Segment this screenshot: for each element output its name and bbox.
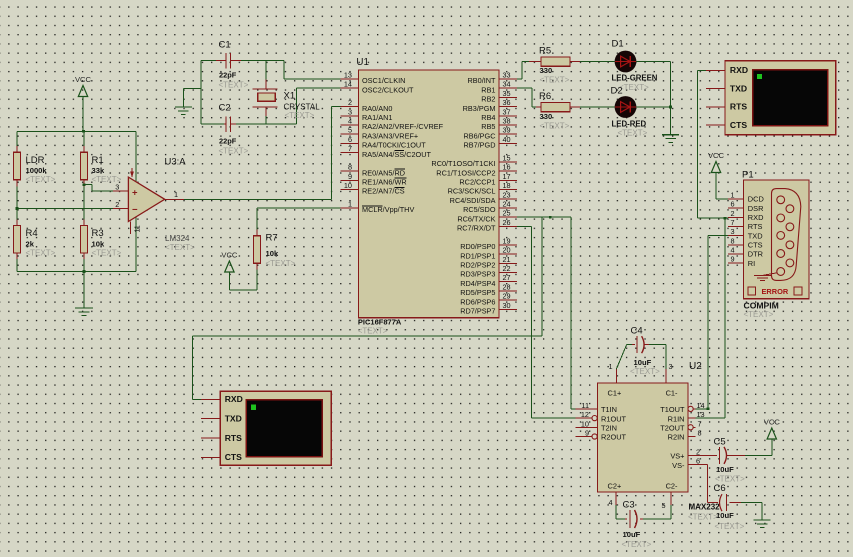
svg-text:C3: C3: [623, 500, 635, 511]
svg-text:U3:A: U3:A: [165, 157, 187, 168]
svg-text:26: 26: [503, 218, 511, 227]
svg-text:13: 13: [697, 410, 705, 419]
svg-text:R4: R4: [26, 228, 38, 239]
U1 left pin stubs: [341, 79, 359, 208]
svg-text:C1+: C1+: [608, 389, 622, 398]
svg-text:23: 23: [503, 190, 511, 199]
svg-text:<TEXT>: <TEXT>: [688, 513, 718, 522]
svg-text:RE2/AN7/CS: RE2/AN7/CS: [362, 187, 405, 196]
U2 <TEXT> MAX232 labels: [688, 503, 720, 522]
capacitor C6: [688, 465, 741, 520]
svg-text:RA4/T0CKI/C1OUT: RA4/T0CKI/C1OUT: [362, 141, 426, 150]
svg-text:2: 2: [730, 209, 734, 218]
svg-text:29: 29: [503, 292, 511, 301]
svg-text:C1: C1: [219, 40, 231, 51]
wire VT1 RXD feed: [697, 70, 728, 218]
svg-text:<TEXT>: <TEXT>: [619, 83, 649, 92]
svg-text:RA3/AN3/VREF+: RA3/AN3/VREF+: [362, 131, 418, 140]
svg-text:27: 27: [503, 273, 511, 282]
svg-text:10uF: 10uF: [716, 511, 734, 520]
svg-text:RD0/PSP0: RD0/PSP0: [460, 242, 495, 251]
svg-text:4: 4: [348, 117, 352, 126]
svg-text:15: 15: [503, 153, 511, 162]
svg-text:25: 25: [503, 209, 511, 218]
svg-text:10: 10: [581, 419, 589, 428]
svg-text:330: 330: [540, 112, 553, 121]
svg-text:35: 35: [503, 89, 511, 98]
wire ground branch: [183, 88, 201, 107]
svg-text:33k: 33k: [92, 166, 105, 175]
svg-text:20: 20: [503, 246, 511, 255]
svg-text:LED-RED: LED-RED: [612, 120, 647, 129]
svg-text:VS-: VS-: [672, 461, 685, 470]
svg-text:RE1/AN6/WR: RE1/AN6/WR: [362, 178, 407, 187]
svg-text:17: 17: [503, 172, 511, 181]
svg-text:LED-GREEN: LED-GREEN: [612, 74, 658, 83]
ground (sensor): [75, 308, 93, 316]
svg-text:RB1: RB1: [481, 85, 495, 94]
ground (LEDs): [662, 135, 679, 143]
svg-text:RA0/AN0: RA0/AN0: [362, 104, 392, 113]
U1 left pin numbers: [344, 70, 352, 208]
svg-text:RB4: RB4: [481, 113, 495, 122]
svg-text:RB7/PGD: RB7/PGD: [463, 141, 495, 150]
svg-text:RC6/TX/CK: RC6/TX/CK: [457, 214, 495, 223]
svg-text:RI: RI: [748, 259, 755, 268]
power VCC (P1): [708, 151, 728, 199]
svg-text:D2: D2: [611, 86, 623, 97]
svg-text:RTS: RTS: [730, 102, 747, 112]
wire C5 to VCC: [745, 439, 772, 456]
svg-text:−: −: [132, 204, 138, 215]
wire RC7 to R1OUT: [517, 226, 576, 418]
svg-text:22pF: 22pF: [219, 137, 237, 146]
svg-text:10uF: 10uF: [716, 465, 734, 474]
svg-text:R1: R1: [92, 155, 104, 166]
svg-text:LDR: LDR: [26, 155, 45, 166]
resistor R5: [529, 46, 580, 76]
svg-text:RC5/SDO: RC5/SDO: [463, 205, 496, 214]
U2 left pin numbers: [581, 401, 589, 438]
svg-text:1: 1: [174, 190, 178, 199]
resistor R1: [81, 146, 105, 187]
svg-text:VCC: VCC: [764, 418, 781, 427]
svg-text:U2: U2: [689, 361, 702, 372]
junction LED rail: [669, 106, 672, 109]
svg-text:10uF: 10uF: [623, 530, 641, 539]
svg-text:RC7/RX/DT: RC7/RX/DT: [457, 224, 496, 233]
svg-text:VCC: VCC: [75, 75, 92, 84]
svg-text:C1-: C1-: [666, 389, 678, 398]
svg-text:VCC: VCC: [221, 251, 238, 260]
svg-text:1: 1: [348, 200, 352, 209]
svg-text:4: 4: [730, 246, 734, 255]
svg-text:<TEXT>: <TEXT>: [540, 122, 570, 131]
svg-text:11: 11: [135, 225, 142, 232]
svg-text:RC3/SCK/SCL: RC3/SCK/SCL: [448, 187, 496, 196]
svg-text:10k: 10k: [92, 240, 105, 249]
svg-text:R2IN: R2IN: [668, 433, 685, 442]
virtual terminal VT1: [725, 61, 836, 135]
virtual terminal VT2: [220, 391, 331, 465]
wire P1 RXD to R1IN: [696, 218, 726, 418]
svg-text:RA2/AN2/VREF-/CVREF: RA2/AN2/VREF-/CVREF: [362, 122, 444, 131]
wire C1-C2 left vertical: [200, 61, 202, 124]
svg-text:<TEXT>: <TEXT>: [285, 111, 315, 120]
svg-text:RXD: RXD: [748, 213, 764, 222]
svg-text:R2OUT: R2OUT: [601, 433, 627, 442]
svg-text:39: 39: [503, 126, 511, 135]
resistor R3: [81, 220, 105, 260]
wire C6 to ground: [741, 503, 762, 520]
svg-text:4: 4: [608, 498, 612, 507]
junction T1OUT tap: [707, 408, 710, 411]
svg-text:OSC1/CLKIN: OSC1/CLKIN: [362, 76, 405, 85]
svg-text:<TEXT>: <TEXT>: [744, 310, 774, 319]
svg-text:<TEXT>: <TEXT>: [715, 522, 745, 531]
svg-text:DCD: DCD: [748, 195, 764, 204]
svg-text:RA1/AN1: RA1/AN1: [362, 113, 392, 122]
U2 bottom pin stubs: [608, 492, 671, 510]
svg-text:28: 28: [503, 283, 511, 292]
svg-text:6: 6: [730, 200, 734, 209]
capacitor C5: [688, 437, 745, 475]
svg-text:40: 40: [503, 135, 511, 144]
svg-text:R3: R3: [92, 228, 104, 239]
svg-text:7: 7: [698, 419, 702, 428]
junction -input tap: [16, 207, 19, 210]
svg-text:8: 8: [348, 163, 352, 172]
svg-text:22: 22: [503, 264, 511, 273]
svg-text:R7: R7: [266, 233, 278, 244]
svg-text:R1OUT: R1OUT: [601, 414, 627, 423]
svg-text:RC1/T1OSI/CCP2: RC1/T1OSI/CCP2: [436, 168, 495, 177]
svg-text:C2+: C2+: [608, 482, 622, 491]
wire MCLR net: [257, 208, 341, 230]
svg-text:1000k: 1000k: [26, 166, 48, 175]
wire R1-R3 column: [83, 131, 85, 271]
svg-text:ERROR: ERROR: [762, 287, 789, 296]
svg-text:COMPIM: COMPIM: [744, 301, 779, 311]
VT2 pin stubs: [201, 399, 220, 457]
svg-text:3: 3: [115, 183, 119, 192]
svg-text:P1: P1: [742, 170, 754, 181]
junction +input tap: [83, 183, 86, 186]
svg-text:RE0/AN5/RD: RE0/AN5/RD: [362, 168, 405, 177]
power VCC (C5): [764, 418, 781, 440]
svg-text:R1IN: R1IN: [668, 414, 685, 423]
svg-text:TXD: TXD: [225, 414, 242, 424]
svg-text:CTS: CTS: [225, 452, 242, 462]
svg-text:RB3/PGM: RB3/PGM: [463, 104, 496, 113]
svg-text:T1IN: T1IN: [601, 405, 617, 414]
svg-text:14: 14: [697, 401, 705, 410]
svg-text:37: 37: [503, 107, 511, 116]
svg-text:1: 1: [730, 190, 734, 199]
wire op-amp -input net: [17, 208, 113, 210]
svg-text:RC0/T1OSO/T1CKI: RC0/T1OSO/T1CKI: [431, 159, 495, 168]
crystal X1: [253, 61, 321, 124]
U1 right pin stubs: [499, 79, 517, 310]
P1 pin numbers: [730, 190, 734, 263]
svg-text:7: 7: [730, 218, 734, 227]
svg-text:34: 34: [503, 80, 511, 89]
svg-text:38: 38: [503, 117, 511, 126]
svg-text:TXD: TXD: [748, 231, 763, 240]
ic U2 MAX232: [598, 361, 703, 492]
svg-text:R6: R6: [539, 91, 551, 102]
wire RB1 to R6: [517, 88, 536, 107]
svg-text:13: 13: [344, 70, 352, 79]
svg-text:T1OUT: T1OUT: [660, 405, 685, 414]
svg-text:U1: U1: [356, 57, 369, 68]
svg-text:24: 24: [503, 200, 511, 209]
svg-text:10: 10: [344, 181, 352, 190]
junction bottom rail: [83, 270, 86, 273]
svg-text:OSC2/CLKOUT: OSC2/CLKOUT: [362, 85, 414, 94]
svg-text:8: 8: [698, 429, 702, 438]
svg-text:RB6/PGC: RB6/PGC: [463, 131, 495, 140]
svg-text:R5: R5: [539, 46, 551, 57]
wire RC6 to T1IN: [517, 217, 576, 409]
svg-text:VS+: VS+: [670, 452, 684, 461]
svg-text:10uF: 10uF: [634, 358, 652, 367]
U1 left pin names: [362, 76, 444, 214]
U2 left pin stubs: [575, 409, 597, 439]
wire RC6 to VT2 RXD: [192, 217, 542, 399]
svg-text:9: 9: [585, 429, 589, 438]
svg-text:<TEXT>: <TEXT>: [26, 248, 56, 257]
wire R6 to D2: [580, 106, 615, 108]
svg-text:5: 5: [662, 501, 666, 510]
svg-text:DSR: DSR: [748, 204, 764, 213]
connector P1 COMPIM: [742, 170, 809, 299]
junction RC6 net: [549, 216, 552, 219]
svg-text:12: 12: [581, 410, 589, 419]
svg-text:CTS: CTS: [748, 241, 763, 250]
capacitor C3: [616, 500, 671, 540]
svg-text:MCLR/Vpp/THV: MCLR/Vpp/THV: [362, 205, 414, 214]
svg-text:6: 6: [348, 135, 352, 144]
svg-text:<TEXT>: <TEXT>: [622, 540, 652, 549]
wire LED ground rail: [636, 62, 670, 135]
svg-text:19: 19: [503, 236, 511, 245]
svg-text:<TEXT>: <TEXT>: [618, 129, 648, 138]
svg-text:PIC16F877A: PIC16F877A: [358, 318, 402, 327]
svg-text:<TEXT>: <TEXT>: [219, 81, 249, 90]
svg-text:C2: C2: [219, 103, 231, 114]
resistor R7: [254, 230, 279, 270]
svg-text:18: 18: [503, 181, 511, 190]
wire op-amp +input net: [84, 185, 113, 191]
wire RB0 to R5: [517, 62, 529, 79]
svg-text:<TEXT>: <TEXT>: [540, 76, 570, 85]
VT1 pin stubs: [706, 70, 725, 125]
svg-text:<TEXT>: <TEXT>: [219, 147, 249, 156]
power VCC (R7): [221, 251, 257, 290]
resistor LDR: [14, 146, 48, 187]
wire right loop vertical: [135, 131, 137, 271]
svg-text:3: 3: [730, 227, 734, 236]
svg-text:TXD: TXD: [730, 83, 747, 93]
svg-text:2k: 2k: [26, 240, 35, 249]
svg-text:<TEXT>: <TEXT>: [165, 243, 195, 252]
power VCC (sensor): [75, 75, 92, 131]
svg-text:RD5/PSP5: RD5/PSP5: [460, 288, 495, 297]
svg-text:330: 330: [540, 66, 553, 75]
U2 right pin numbers: [696, 401, 705, 466]
capacitor C4: [616, 326, 666, 370]
svg-text:RD4/PSP4: RD4/PSP4: [460, 279, 495, 288]
svg-text:D1: D1: [612, 39, 624, 50]
wire top rail: [17, 130, 136, 132]
svg-text:11: 11: [581, 401, 589, 410]
svg-text:14: 14: [344, 80, 352, 89]
ground (oscillator): [175, 107, 192, 115]
svg-text:<TEXT>: <TEXT>: [630, 367, 660, 376]
svg-text:CTS: CTS: [730, 120, 747, 130]
svg-text:36: 36: [503, 98, 511, 107]
svg-text:2: 2: [115, 200, 119, 209]
resistor R4: [14, 220, 38, 260]
svg-text:9: 9: [348, 172, 352, 181]
svg-text:LM324: LM324: [165, 234, 190, 243]
svg-text:21: 21: [503, 255, 511, 264]
wire LDR-R4 column: [16, 131, 18, 271]
svg-text:RD6/PSP6: RD6/PSP6: [460, 297, 495, 306]
svg-text:3: 3: [348, 107, 352, 116]
svg-text:8: 8: [730, 236, 734, 245]
svg-text:T2IN: T2IN: [601, 424, 617, 433]
svg-text:10k: 10k: [266, 249, 279, 258]
svg-text:C5: C5: [714, 437, 726, 448]
wire bottom rail: [17, 271, 136, 273]
svg-text:RD3/PSP3: RD3/PSP3: [460, 270, 495, 279]
wire P1 TXD to T1OUT: [696, 236, 728, 409]
U1 right pin numbers: [503, 70, 511, 310]
svg-text:C2-: C2-: [666, 482, 678, 491]
svg-text:<TEXT>: <TEXT>: [92, 248, 122, 257]
wire ground stem (sensor): [83, 272, 85, 309]
svg-text:1: 1: [608, 362, 612, 371]
svg-text:RC2/CCP1: RC2/CCP1: [459, 178, 495, 187]
svg-text:5: 5: [348, 126, 352, 135]
capacitor C2: [216, 103, 241, 146]
wire R5 to D1: [580, 61, 615, 63]
svg-text:C6: C6: [714, 483, 726, 494]
svg-text:<TEXT>: <TEXT>: [266, 259, 296, 268]
svg-text:RA5/AN4/SS/C2OUT: RA5/AN4/SS/C2OUT: [362, 150, 431, 159]
junction VCC-top wire: [82, 130, 85, 133]
svg-text:RXD: RXD: [225, 394, 243, 404]
P1 pin stubs: [728, 199, 744, 263]
svg-text:7: 7: [348, 144, 352, 153]
svg-text:3: 3: [669, 362, 673, 371]
svg-text:DTR: DTR: [748, 250, 763, 259]
svg-text:C4: C4: [631, 326, 643, 337]
svg-text:+: +: [132, 187, 138, 198]
svg-text:X1: X1: [284, 91, 296, 102]
svg-text:VCC: VCC: [708, 151, 725, 160]
U2 top pin stubs: [608, 362, 672, 383]
U2 right pin stubs: [688, 406, 696, 436]
svg-text:33: 33: [503, 70, 511, 79]
svg-text:30: 30: [503, 301, 511, 310]
svg-text:RTS: RTS: [225, 433, 242, 443]
capacitor C1: [216, 40, 241, 80]
svg-text:22pF: 22pF: [219, 71, 237, 80]
svg-text:RD7/PSP7: RD7/PSP7: [460, 307, 495, 316]
svg-text:2: 2: [348, 98, 352, 107]
microcontroller U1 PIC16F877A: [356, 57, 499, 327]
svg-text:RD1/PSP1: RD1/PSP1: [460, 251, 495, 260]
svg-text:RB0/INT: RB0/INT: [468, 76, 497, 85]
junction RXD net: [724, 217, 727, 220]
svg-text:16: 16: [503, 163, 511, 172]
resistor R6: [536, 91, 580, 121]
svg-text:<TEXT>: <TEXT>: [358, 327, 388, 336]
svg-text:RD2/PSP2: RD2/PSP2: [460, 261, 495, 270]
wire C2 bottom net: [201, 88, 341, 124]
LED D1: [612, 39, 658, 83]
svg-text:<TEXT>: <TEXT>: [26, 175, 56, 184]
LED D2: [611, 86, 647, 129]
svg-text:T2OUT: T2OUT: [660, 424, 685, 433]
ground (C6): [754, 520, 771, 528]
wire op-amp output to RA0: [184, 107, 341, 200]
svg-text:RB5: RB5: [481, 122, 495, 131]
wire C1 top net: [201, 61, 341, 79]
op-amp U3:A: [113, 157, 186, 235]
svg-text:RC4/SDI/SDA: RC4/SDI/SDA: [450, 196, 496, 205]
U1 right pin names: [431, 76, 496, 316]
svg-text:9: 9: [730, 255, 734, 264]
svg-text:RXD: RXD: [730, 65, 748, 75]
svg-text:RB2: RB2: [481, 95, 495, 104]
svg-text:RTS: RTS: [748, 222, 763, 231]
